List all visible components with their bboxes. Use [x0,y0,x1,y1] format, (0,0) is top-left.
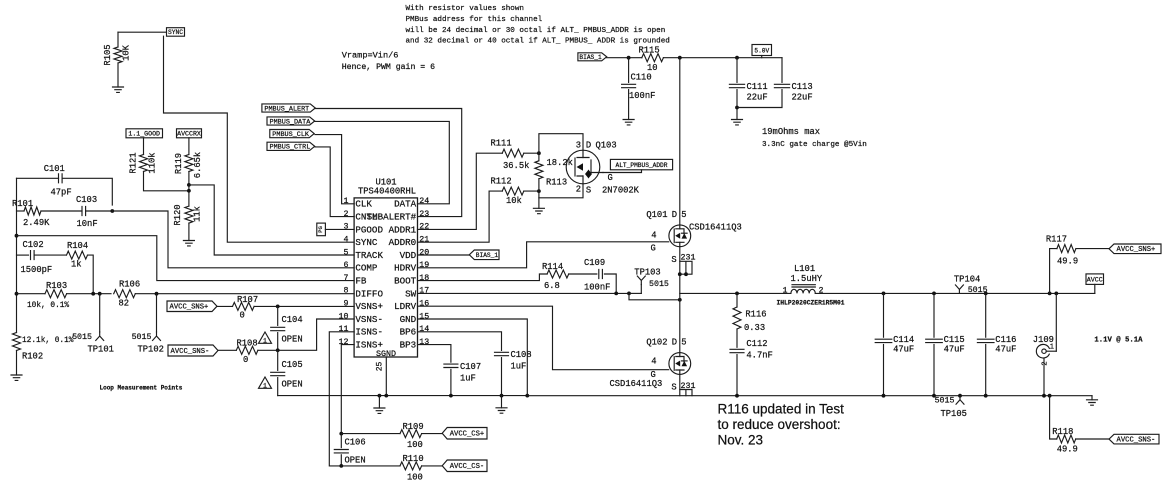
capacitor C107 [444,364,458,367]
op-amp U101 TPS40400RHL controller body [354,198,417,357]
resistor R119 [185,155,193,172]
wire AVCCRX to R119 [188,138,190,155]
svg-text:1500pF: 1500pF [21,265,53,275]
svg-text:5: 5 [681,338,686,348]
svg-text:9: 9 [344,300,349,309]
capacitor C113 [774,84,789,87]
net label BIAS_1 top [578,53,607,61]
svg-text:5015: 5015 [132,333,152,342]
wire R112 to node [524,190,539,192]
ground below R113 [533,208,544,213]
svg-text:to reduce overshoot:: to reduce overshoot: [718,417,841,432]
svg-text:C104: C104 [282,315,303,325]
test point TP102 [153,332,161,341]
svg-text:OPEN: OPEN [282,380,303,390]
node junction SW FET column [678,298,682,302]
wire C112 to PGND rail [736,355,738,396]
wire SW jog to FET column [629,293,680,299]
svg-text:5: 5 [681,210,686,220]
node junction ground stem [378,394,382,398]
wire R115 to 5V rail [663,57,782,59]
svg-text:S: S [671,255,676,265]
resistor R111 [502,149,524,157]
wire U101 pin 15 GND to rail [418,319,528,396]
resistor R109 [400,430,422,438]
svg-text:BIAS_1: BIAS_1 [476,252,499,259]
svg-text:ADDR0: ADDR0 [389,237,417,248]
svg-text:AVCC_SNS+: AVCC_SNS+ [1117,246,1156,254]
svg-text:D: D [672,338,677,348]
ground below C110 [623,120,634,125]
svg-text:100nF: 100nF [584,282,610,292]
svg-text:25: 25 [376,362,385,372]
net label SYNC [167,28,185,37]
node junction source tie left [678,272,682,276]
test point TP105 [956,396,964,405]
svg-text:3.3nC gate charge @5Vin: 3.3nC gate charge @5Vin [762,141,867,149]
svg-text:BP3: BP3 [400,340,417,351]
svg-text:SMBALERT#: SMBALERT# [367,212,417,223]
svg-text:BP6: BP6 [400,327,417,338]
svg-text:D: D [586,140,591,150]
svg-text:R104: R104 [67,241,88,251]
svg-text:22uF: 22uF [747,93,768,103]
net label ALT_PMBUS_ADDR [610,159,672,169]
svg-text:S: S [586,186,591,196]
capacitor C116 [977,339,994,342]
svg-text:10k: 10k [506,196,522,206]
wire PG flag to U101 pin 3 PGOOD [325,228,354,230]
capacitor C108 [495,352,509,355]
svg-text:100: 100 [407,473,423,483]
svg-text:R117: R117 [1046,235,1067,245]
svg-text:5015: 5015 [649,280,669,289]
wire Q103 gate to ALT_PMBUS_ADDR [603,170,642,173]
resistor R115 [642,54,664,62]
svg-text:R105: R105 [103,44,113,65]
wire SGND rail [278,395,528,397]
svg-text:1.1V @ 5.1A: 1.1V @ 5.1A [1094,337,1143,345]
wire C113 bottom loop to C111 [737,90,782,108]
svg-text:C102: C102 [23,240,44,250]
resistor R117 [1057,245,1076,253]
wire U101 pin 13 BP3 to C107 [418,345,451,363]
svg-text:GND: GND [400,314,417,325]
svg-text:and 32 decimal or 40 octal if: and 32 decimal or 40 octal if ALT_ PMBUS… [406,38,670,46]
svg-text:10nF: 10nF [77,219,98,229]
transistor Q102 CSD16411Q3 [669,353,691,375]
node junction SW jog [627,292,631,296]
node junction R104 tap [91,292,95,296]
svg-text:7: 7 [344,274,349,283]
svg-text:S: S [671,382,676,392]
svg-text:AVCC_SNS-: AVCC_SNS- [1117,437,1156,445]
net label AVCC_SNS- right [1109,434,1159,444]
power flag PG at pin 3 [317,223,326,236]
wire rail to R103 [17,293,46,295]
revision flag 1 lower [259,377,272,388]
svg-text:R115: R115 [639,46,660,56]
wire U101 pin 12 ISNS+ down to R109 row [341,345,354,434]
svg-text:OPEN: OPEN [282,335,303,345]
wire C104 top stub [277,306,279,325]
node junction R112 R113 bottom [537,189,541,193]
wire R106 to U101 pin 8 DIFFO [135,293,354,295]
node junction TP105 [958,394,962,398]
svg-text:18: 18 [419,274,429,283]
resistor R120 [185,206,193,223]
svg-text:R120: R120 [173,204,183,225]
svg-text:PMBUS_CLK: PMBUS_CLK [272,131,310,139]
wire R120 to ground [188,223,190,240]
svg-text:VDD: VDD [400,250,417,261]
svg-text:R103: R103 [46,281,67,291]
wire R107 to U101 pin 9 VSNS+ [254,305,354,307]
wire ground stem right end [1091,396,1093,400]
svg-text:C110: C110 [631,73,652,83]
svg-text:will be 24 decimal or 30 octal: will be 24 decimal or 30 octal if ALT_ P… [406,27,666,35]
ground on rail below C108 [496,408,507,413]
wire node to R113 top [538,153,540,160]
net label AVCC_CS- [442,460,487,472]
wire AVCC_SNS+ to R107 [217,305,233,307]
svg-text:PMBUS_ALERT: PMBUS_ALERT [264,105,309,113]
capacitor C110 [622,84,636,87]
svg-text:Q101: Q101 [646,210,667,220]
svg-text:47uF: 47uF [893,345,914,355]
svg-text:23: 23 [419,210,429,219]
svg-text:2.49K: 2.49K [23,218,50,228]
svg-text:C106: C106 [345,438,366,448]
svg-text:R107: R107 [237,295,258,305]
inductor L101 1.5uHY [791,289,815,293]
svg-text:With resistor values shown: With resistor values shown [406,5,524,13]
svg-text:C116: C116 [995,335,1016,345]
wire Q101 drain column from 5V rail [679,58,681,225]
svg-text:SYNC: SYNC [355,237,378,248]
svg-text:Vramp=Vin/6: Vramp=Vin/6 [342,51,399,61]
svg-text:Q103: Q103 [596,140,617,150]
node junction rail FB wire [15,234,19,238]
wire C108 bottom to rail [501,358,503,396]
svg-text:47uF: 47uF [944,345,965,355]
svg-text:FB: FB [355,276,367,287]
svg-text:ADDR1: ADDR1 [389,224,417,235]
ground on SGND rail [374,408,385,413]
node junction C107 rail [449,394,453,398]
svg-text:G: G [608,173,613,183]
resistor R108 [236,346,258,354]
wire SW to TP103 stem [629,292,641,294]
wire U101 pin 11 ISNS- down to R110 row [329,332,354,466]
capacitor C112 [730,349,744,352]
svg-text:22uF: 22uF [792,93,813,103]
net label 1.1_GOOD [126,129,163,138]
wire PMBUS_CTRL to U101 pin 2 CNTL [315,147,354,217]
resistor R104 [67,251,88,259]
svg-text:AVCC_SNS+: AVCC_SNS+ [170,304,209,312]
capacitor C104 [271,327,285,330]
svg-text:47uF: 47uF [995,345,1016,355]
wire rail to C102 [17,254,29,256]
svg-text:ALT_PMBUS_ADDR: ALT_PMBUS_ADDR [616,162,668,169]
svg-text:10K: 10K [122,44,132,61]
node junction SGND pin 25 [384,394,388,398]
capacitor C106 [334,450,348,453]
wire R105 top stub [117,32,119,47]
wire VOUT down to J109 pin 1 [1055,293,1057,351]
svg-text:4: 4 [651,357,656,367]
svg-text:SW: SW [405,288,417,299]
svg-text:5015: 5015 [968,286,988,295]
resistor R105 [114,47,122,63]
node junction source tie mid [684,272,688,276]
net label PMBUS_CTRL [267,142,315,150]
test point TP103 [637,276,645,285]
resistor R114 [547,270,569,278]
svg-text:19: 19 [419,261,429,270]
wire C114 to PGND rail [883,345,885,396]
capacitor C101 [59,174,63,183]
capacitor C103 [82,207,86,216]
node junction C101 C103 COMP [110,209,114,213]
svg-text:21: 21 [419,236,429,245]
svg-text:G: G [651,244,656,254]
svg-text:Loop Measurement Points: Loop Measurement Points [100,384,183,391]
wire AVCC_SNS- to R108 [218,349,236,351]
svg-text:5015: 5015 [935,397,955,406]
svg-text:TP103: TP103 [634,268,660,278]
svg-text:12: 12 [339,338,349,347]
ground below R105 [113,87,124,92]
svg-text:49.9: 49.9 [1057,256,1078,266]
wire R111 to node [524,152,539,154]
node junction R119 TRACK tap [187,183,191,187]
wire C107 bottom to rail [450,369,452,395]
svg-text:10k, 0.1%: 10k, 0.1% [27,302,69,310]
wire R118 to AVCC_SNS- [1076,438,1109,440]
node junction C104 top [276,305,280,309]
svg-text:TP101: TP101 [88,345,114,355]
svg-text:D: D [672,210,677,220]
svg-text:82: 82 [119,299,130,309]
wire U101 pin 18 BOOT to R114 [418,274,548,281]
svg-text:17: 17 [419,287,429,296]
svg-text:C115: C115 [944,335,965,345]
resistor R112 [502,187,524,195]
node junction C114 rail [882,394,886,398]
wire AVCC label stem [1094,284,1096,293]
wire U101 pin 16 LDRV to Q102 gate [418,306,669,370]
svg-text:Q102: Q102 [646,338,667,348]
svg-text:R113: R113 [546,178,567,188]
resistor R110 [400,462,422,470]
capacitor C114 [875,339,892,342]
wire R110 to AVCC_CS- [422,465,443,467]
svg-text:R108: R108 [237,339,258,349]
wire U101 pin 19 HDRV to Q101 gate [418,242,669,268]
capacitor C105 [271,372,285,375]
svg-text:13: 13 [419,338,429,347]
Q101 source pin tie box [680,261,692,274]
net label PMBUS_DATA [267,117,315,125]
resistor R116 [733,307,741,329]
wire node to R110 [341,465,400,467]
wire VOUT to C115 [933,293,935,337]
wire C106 top stub [340,434,342,448]
svg-text:10: 10 [339,312,349,321]
wire C109 to SW row [604,274,616,293]
svg-text:20: 20 [419,248,429,257]
svg-text:AVCC_SNS-: AVCC_SNS- [171,348,210,356]
net label AVCC_SNS- [168,345,218,356]
node junction C115 [932,292,936,296]
node junction C115 rail [932,394,936,398]
wire rail to C101 [17,177,59,179]
wire C115 to PGND rail [933,345,935,396]
svg-text:AVCC_CS+: AVCC_CS+ [450,431,485,439]
wire VOUT up to R117 [1050,249,1057,294]
wire C110 to ground [628,90,630,120]
net label AVCC_SNS+ [167,301,217,312]
svg-text:R119: R119 [174,153,184,174]
svg-text:1.5uHY: 1.5uHY [791,274,823,284]
node junction C110 tap [627,56,631,60]
wire Q102 source stub [679,374,681,389]
resistor R106 [114,290,136,298]
svg-text:VSNS-: VSNS- [355,314,383,325]
svg-text:10: 10 [647,63,658,73]
wire R108 to U101 pin 10 VSNS- [258,319,354,350]
node junction TP101 tap [98,292,102,296]
svg-text:R112: R112 [491,177,512,187]
svg-text:R116: R116 [745,310,766,320]
svg-text:C114: C114 [893,335,914,345]
svg-text:1uF: 1uF [460,374,476,384]
wire U101 pin 21 ADDR0 to R112 [418,191,503,242]
svg-text:36.5k: 36.5k [503,161,529,171]
svg-text:12.1k, 0.1%: 12.1k, 0.1% [22,337,74,345]
power label AVCC [1086,274,1104,285]
node junction C109 SW [614,292,618,296]
node junction C104 C105 [276,348,280,352]
revision flag 1 upper [259,332,272,343]
node junction Q101 drain column [678,56,682,60]
wire PGND rail bottom [527,395,1092,397]
svg-text:6.8: 6.8 [544,281,560,291]
svg-text:C105: C105 [282,360,303,370]
U101 pin 25 SGND stub wire [385,357,387,396]
svg-text:6: 6 [344,261,349,270]
resistor R102 [13,333,21,351]
svg-text:PMBUS_DATA: PMBUS_DATA [270,118,312,126]
wire C111 top [736,58,738,83]
svg-text:49.9: 49.9 [1057,445,1078,455]
svg-text:5: 5 [344,248,349,257]
wire C103 to node [86,210,113,212]
wire FB node to U101 pin 7 FB [17,236,355,281]
svg-text:1k: 1k [71,260,82,270]
wire node up over to Q103 drain [539,134,583,154]
capacitor C102 [31,251,35,260]
wire R109 to AVCC_CS+ [422,433,443,435]
node junction C108 rail ground [500,394,504,398]
wire TP103 stem vertical [640,285,642,294]
wire rail to R101 [17,210,25,212]
wire C105 bottom to ground rail [277,378,279,396]
node junction ISNS- R110 C106 [339,464,343,468]
net label PMBUS_CLK [270,130,314,138]
svg-text:1.1_GOOD: 1.1_GOOD [128,131,160,138]
wire C104 bottom to node [277,333,279,349]
net label PMBUS_ALERT [262,104,315,112]
svg-text:15: 15 [419,312,429,321]
net label AVCCRX [177,129,202,138]
svg-text:R116 updated in Test: R116 updated in Test [718,402,845,417]
wire L101 pin 2 to VOUT [815,292,1095,294]
wire PMBUS_CLK to U101 pin 1 CLK [315,135,354,204]
wire VOUT to C114 [883,293,885,337]
svg-text:C111: C111 [747,82,768,92]
wire R121 bottom to node [144,172,189,191]
svg-text:C112: C112 [746,339,767,349]
svg-text:C109: C109 [584,258,605,268]
wire node to ground stem [538,198,540,209]
wire R104 to R103 row [88,255,94,294]
ground below C111 [732,120,743,125]
wire U101 pin 20 VDD to BIAS_1 [418,254,470,256]
svg-text:11k: 11k [193,206,203,222]
svg-text:2: 2 [1041,361,1049,365]
svg-text:18.2k: 18.2k [547,158,573,168]
wire C111 bottom to ground [736,90,738,120]
resistor R118 [1057,435,1076,443]
svg-text:0: 0 [240,311,245,321]
svg-text:PMBUS_CTRL: PMBUS_CTRL [270,144,311,152]
test point TP104 [955,285,963,294]
svg-text:R118: R118 [1052,427,1073,437]
svg-text:8: 8 [344,287,349,296]
svg-text:C108: C108 [511,350,532,360]
svg-text:5.0V: 5.0V [754,47,769,54]
svg-text:R114: R114 [542,262,563,272]
svg-text:HDRV: HDRV [394,263,417,274]
wire J109 pin 2 to ground rail [1043,358,1045,396]
svg-text:DATA: DATA [394,199,417,210]
Q102 source pin tie box [680,390,692,396]
svg-text:PG: PG [317,226,324,233]
wire left rail FB node vertical [16,178,18,332]
svg-text:PMBus address for this channel: PMBus address for this channel [406,16,543,24]
net label AVCC_SNS+ right [1109,244,1161,254]
node junction C114 [882,292,886,296]
svg-text:1: 1 [263,338,267,345]
svg-text:22: 22 [419,223,429,232]
wire Q101 source column to SW [679,247,681,300]
svg-text:47pF: 47pF [51,188,72,198]
wire PMBUS_DATA to U101 pin 24 DATA [315,121,449,203]
wire PMBUS_ALERT to U101 pin 23 SMBALERT# [315,109,462,217]
resistor R101 [24,207,41,215]
wire 1.1_GOOD to R121 [143,138,145,155]
svg-text:COMP: COMP [355,263,378,274]
wire U101 pin 17 SW row [418,292,630,294]
svg-text:L101: L101 [794,264,815,274]
wire BIAS_1 to R115 [607,57,642,59]
svg-text:CSD16411Q3: CSD16411Q3 [610,379,663,389]
svg-text:CSD16411Q3: CSD16411Q3 [689,222,742,232]
svg-text:C107: C107 [460,362,481,372]
